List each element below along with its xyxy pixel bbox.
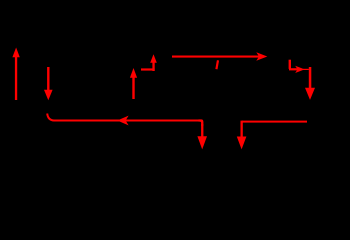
current arrow I4 (bottom-left branch, corner turning downward) bbox=[197, 119, 207, 149]
current arrow I2 (left branch, downward) bbox=[44, 67, 53, 100]
current arrow I5 (centre branch, upward) bbox=[130, 68, 137, 99]
current arrow I10 (bottom-right branch, corner turning downward) bbox=[237, 121, 247, 150]
current arrow I9 (right branch, downward) bbox=[305, 67, 315, 100]
current arrow I7 (long top run, pointing right) bbox=[172, 52, 267, 60]
wire (bottom-left return path with curled end, runs right) bbox=[47, 114, 202, 121]
current arrow I1 (far-left branch, upward) bbox=[12, 48, 19, 101]
current arrow I8 (step-shaped, down then right) bbox=[289, 60, 309, 73]
label tick i (small italic current label under top wire) bbox=[215, 60, 219, 69]
current arrow I6 (L-shaped, right then up into node) bbox=[141, 54, 157, 71]
current arrowhead I3 (on bottom return wire, pointing left) bbox=[117, 116, 128, 126]
wire (bottom-right return run) bbox=[242, 121, 307, 123]
